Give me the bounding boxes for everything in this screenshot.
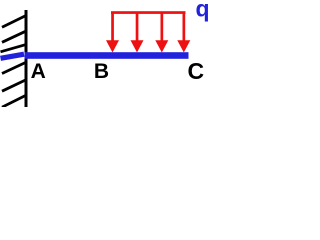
distributed load top line [111,11,186,14]
svg-text:C: C [187,58,204,84]
wall hatch stroke 3 [1,45,26,52]
wall hatch stroke 1 [2,16,26,27]
wall hatch stroke 6 [2,80,26,91]
beam A-C [25,52,189,59]
svg-text:q: q [195,0,209,21]
wall hatch stroke 4 (blue, beam level) [1,54,25,58]
load arrow 2 shaft [136,13,139,42]
load arrow 4 head [177,40,190,52]
load arrow 3 shaft [161,13,164,42]
wall hatch stroke 7 [2,96,26,108]
load arrow 4 shaft [183,13,186,42]
wall hatch stroke 2 [2,31,26,42]
svg-text:B: B [94,60,109,83]
wall vertical line [25,10,28,107]
wall hatch stroke 5 [2,63,26,74]
load arrow 1 head [106,40,119,52]
svg-text:A: A [31,60,46,83]
load arrow 1 shaft [111,13,114,42]
load arrow 2 head [131,40,144,52]
load arrow 3 head [155,40,168,52]
